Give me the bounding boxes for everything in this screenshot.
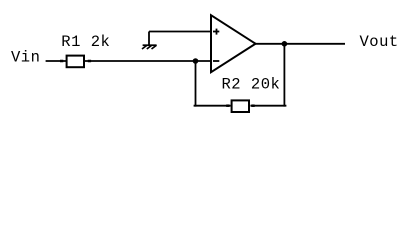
op-amp plus input marker <box>213 31 219 33</box>
op-amp U1 <box>211 15 256 72</box>
pin tick R1 right pin <box>88 60 91 63</box>
node junction dot at inverting input <box>193 58 199 64</box>
wire feedback right vertical <box>283 44 285 107</box>
wire feedback left vertical <box>195 61 197 107</box>
resistor R2 <box>232 100 249 112</box>
wire ground stem <box>148 32 150 46</box>
pin tick R1 left pin <box>60 60 63 63</box>
svg-text:R2 20k: R2 20k <box>222 75 281 93</box>
svg-text:Vin: Vin <box>11 48 40 66</box>
pin tick R2 right pin <box>251 104 254 107</box>
wire op-amp output to Vout <box>255 43 345 45</box>
wire feedback bottom left segment <box>194 105 231 107</box>
svg-text:Vout: Vout <box>360 33 399 51</box>
ground <box>142 45 157 49</box>
svg-text:R1 2k: R1 2k <box>61 33 110 51</box>
wire Vin to R1 <box>46 60 66 62</box>
node junction dot at output <box>282 41 288 47</box>
wire ground to op-amp noninverting input with plus bar <box>149 31 211 33</box>
pin tick R2 left pin <box>226 104 229 107</box>
resistor R1 <box>67 56 84 68</box>
op-amp minus input marker <box>213 60 219 62</box>
wire R1 to op-amp inverting input with minus dash <box>85 60 211 62</box>
wire feedback bottom right segment <box>250 105 286 107</box>
op-amp plus vertical stroke <box>216 29 218 35</box>
